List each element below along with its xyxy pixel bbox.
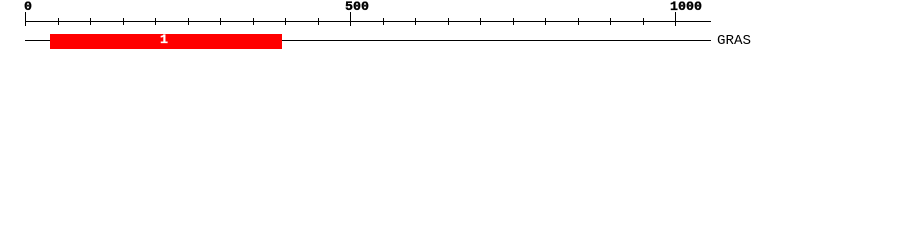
ruler axis line	[25, 21, 711, 22]
domain box 1 (red)	[50, 34, 282, 49]
ruler minor tick at 750	[513, 18, 514, 25]
ruler minor tick at 600	[415, 18, 416, 25]
ruler minor tick at 150	[123, 18, 124, 25]
ruler label 0	[24, 3, 32, 13]
ruler minor tick at 900	[610, 18, 611, 25]
domain box label 1	[160, 36, 168, 46]
ruler minor tick at 950	[643, 18, 644, 25]
ruler minor tick at 250	[188, 18, 189, 25]
sequence backbone line	[25, 40, 711, 41]
ruler minor tick at 550	[383, 18, 384, 25]
sequence name GRAS	[717, 36, 751, 46]
ruler minor tick at 700	[480, 18, 481, 25]
ruler minor tick at 200	[155, 18, 156, 25]
ruler minor tick at 400	[285, 18, 286, 25]
ruler minor tick at 850	[578, 18, 579, 25]
ruler label 1000	[670, 3, 702, 13]
ruler minor tick at 350	[253, 18, 254, 25]
ruler major tick at 500	[350, 12, 351, 26]
ruler minor tick at 800	[545, 18, 546, 25]
ruler minor tick at 300	[220, 18, 221, 25]
ruler major tick at 1000	[675, 12, 676, 26]
ruler minor tick at 450	[318, 18, 319, 25]
ruler minor tick at 650	[448, 18, 449, 25]
ruler label 500	[345, 3, 369, 13]
ruler major tick at 0	[25, 12, 26, 26]
ruler minor tick at 100	[90, 18, 91, 25]
ruler minor tick at 50	[58, 18, 59, 25]
